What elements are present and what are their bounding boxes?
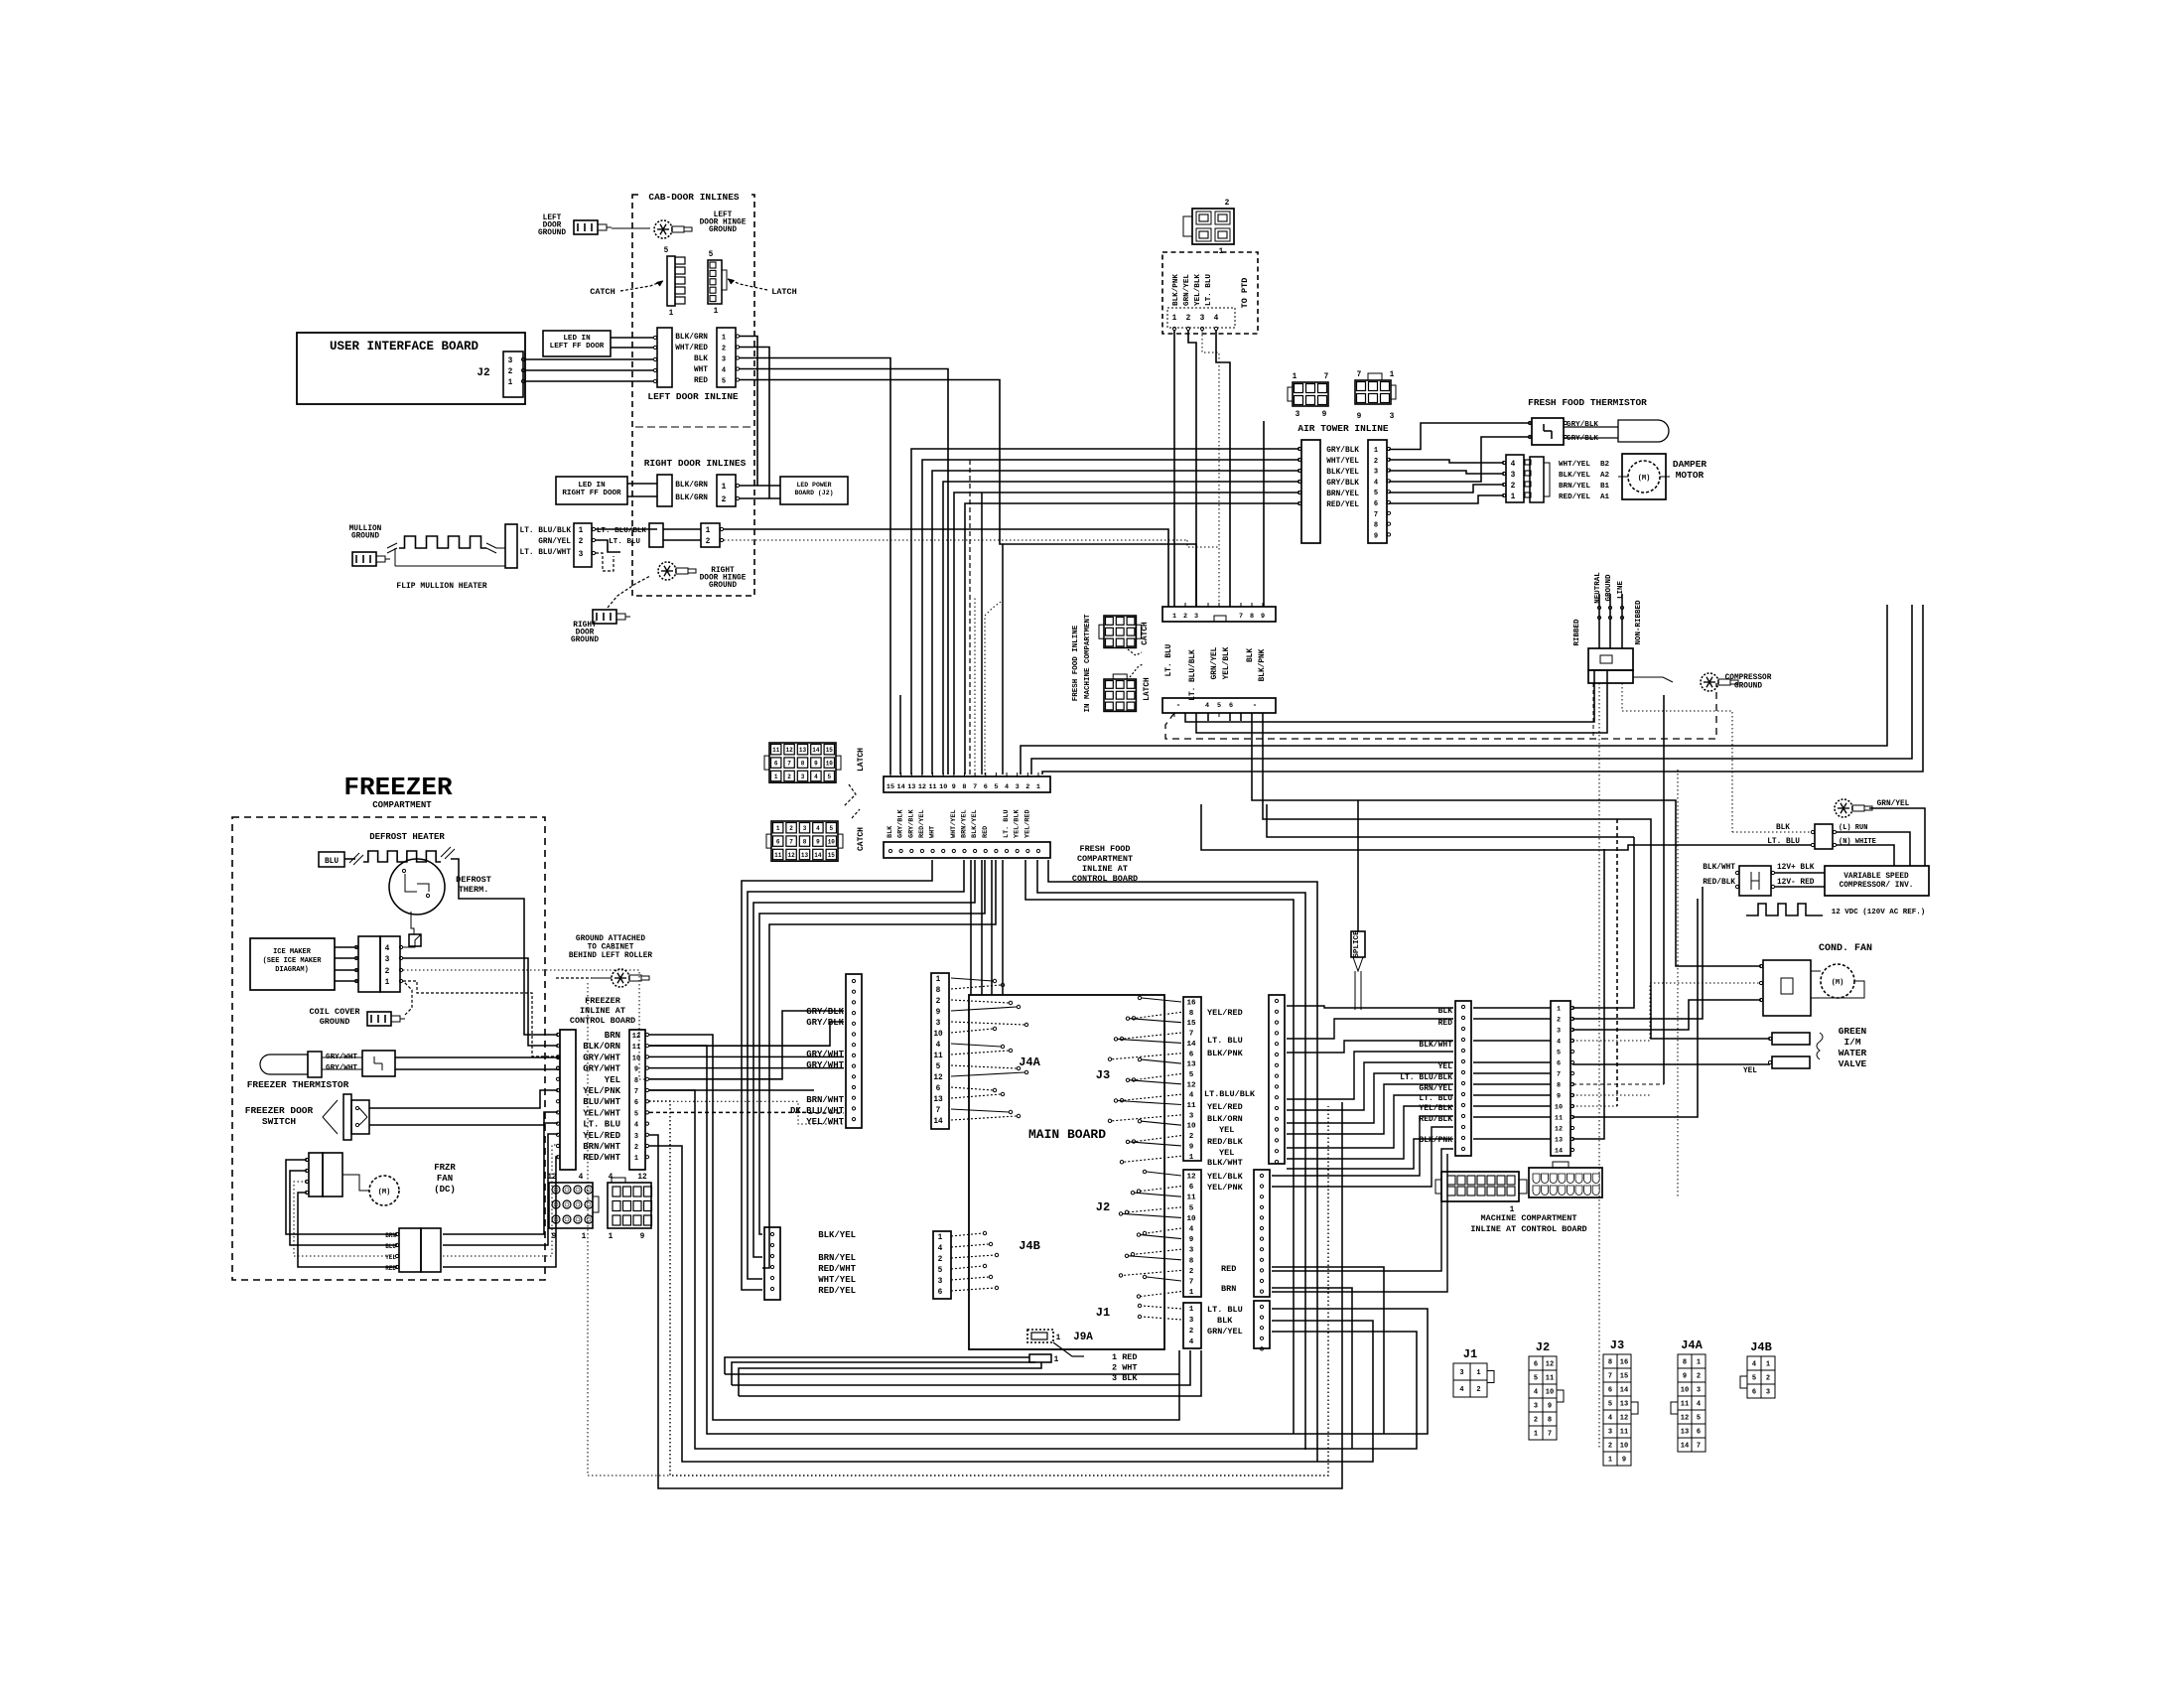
svg-text:14: 14 [1555,1148,1563,1156]
svg-text:1: 1 [1534,1431,1538,1439]
wires LED right [627,483,657,485]
svg-text:LT. BLU: LT. BLU [1003,809,1011,838]
svg-text:7: 7 [1239,613,1243,621]
svg-text:8: 8 [1683,1359,1687,1367]
cond fan wires [1676,960,1761,966]
svg-text:WHT/YEL: WHT/YEL [818,1275,856,1285]
svg-text:RED/BLK: RED/BLK [1207,1137,1244,1147]
svg-text:1: 1 [706,527,711,535]
svg-text:1: 1 [1172,613,1176,621]
svg-text:LT. BLU: LT. BLU [1767,838,1800,846]
svg-text:4: 4 [936,1042,941,1050]
svg-text:3: 3 [1766,1389,1770,1397]
terminal left door hinge ground [654,220,672,238]
svg-text:LATCH: LATCH [771,287,797,297]
svg-text:6: 6 [938,1289,943,1297]
svg-text:6: 6 [1189,1051,1194,1058]
svg-text:BLK/YEL: BLK/YEL [971,809,979,838]
svg-text:A1: A1 [1600,493,1610,501]
svg-text:YEL: YEL [385,1254,396,1261]
bus lines lower [1252,713,1676,960]
mullion heater connector [505,524,517,568]
svg-text:1: 1 [1557,1006,1561,1014]
svg-text:J2: J2 [1536,1340,1550,1354]
svg-text:BLK/ORN: BLK/ORN [583,1042,620,1052]
svg-text:LT. BLU: LT. BLU [1207,1036,1243,1046]
svg-text:FAN: FAN [437,1174,453,1184]
freezer thermistor symbol [260,1055,308,1074]
wires fresh food inline risers [974,367,976,774]
svg-text:12 VDC (120V AC REF.): 12 VDC (120V AC REF.) [1832,909,1926,916]
svg-text:4: 4 [1608,1415,1612,1423]
svg-text:COMPRESSOR/ INV.: COMPRESSOR/ INV. [1840,882,1914,890]
svg-text:11: 11 [774,852,782,859]
svg-text:WHT: WHT [929,826,937,838]
svg-text:3: 3 [1189,1247,1194,1255]
ffci cascade to J4B strip [742,860,932,1290]
freezer inline right strip [629,1030,645,1170]
svg-text:RED/BLK: RED/BLK [1703,879,1735,887]
air tower inline right strip [1368,440,1387,543]
svg-text:GROUND: GROUND [1605,574,1613,602]
J1 stubs [1142,1306,1181,1309]
svg-text:BRN/WHT: BRN/WHT [806,1095,844,1105]
svg-text:USER INTERFACE BOARD: USER INTERFACE BOARD [330,340,479,353]
svg-text:10: 10 [1620,1443,1628,1451]
svg-text:GROUND: GROUND [709,582,737,590]
svg-text:GROUND: GROUND [351,533,379,541]
svg-text:2: 2 [1189,1328,1194,1336]
svg-text:YEL: YEL [1219,1148,1234,1158]
svg-text:COMPARTMENT: COMPARTMENT [1077,854,1133,864]
svg-text:4: 4 [1005,783,1009,791]
svg-text:7: 7 [1324,373,1329,381]
svg-text:6: 6 [1189,1184,1194,1192]
svg-text:7: 7 [1374,511,1378,519]
svg-text:9: 9 [816,839,820,846]
J9A connector [1027,1330,1053,1342]
damper motor box [1622,454,1666,499]
svg-text:GROUND: GROUND [538,229,566,237]
svg-text:TO CABINET: TO CABINET [588,944,634,952]
svg-text:J2: J2 [1096,1200,1110,1214]
svg-text:1: 1 [582,1233,587,1241]
svg-text:(M): (M) [1832,979,1844,987]
svg-text:CATCH: CATCH [1142,622,1150,645]
svg-text:AIR TOWER INLINE: AIR TOWER INLINE [1297,423,1389,434]
svg-text:11: 11 [1620,1429,1628,1437]
svg-text:1: 1 [938,1234,943,1242]
svg-text:RIBBED: RIBBED [1573,619,1581,646]
svg-text:2: 2 [722,496,727,504]
svg-text:4: 4 [1189,1092,1194,1100]
J4A fan stubs [951,978,993,981]
svg-text:VALVE: VALVE [1839,1058,1867,1069]
svg-text:3: 3 [1016,783,1020,791]
svg-text:FREEZER: FREEZER [585,996,621,1006]
svg-text:LT. BLU: LT. BLU [583,1120,620,1130]
svg-text:6: 6 [1608,1387,1612,1395]
wire LT BLU dotted long [724,539,1187,541]
svg-text:13: 13 [907,783,915,791]
svg-text:4: 4 [579,1174,584,1182]
svg-text:4: 4 [634,1122,638,1130]
svg-text:3: 3 [1511,472,1516,480]
wire pin2 RED up to inverter [1572,887,1703,1019]
cab-door inlines dashed box [632,195,754,596]
freezer fan wires to inline [443,1123,558,1234]
svg-text:BLK/WHT: BLK/WHT [1419,1041,1452,1050]
svg-text:LATCH: LATCH [1144,677,1152,701]
svg-text:11: 11 [772,747,780,754]
PTD pin row [1167,308,1235,328]
svg-text:FREEZER DOOR: FREEZER DOOR [245,1105,314,1116]
LED IN RIGHT FF DOOR box [556,477,627,504]
svg-text:9: 9 [1189,1143,1194,1151]
freezer inline left strip [560,1030,576,1170]
svg-text:5: 5 [709,251,714,259]
main board box [969,995,1164,1349]
svg-text:7: 7 [1548,1431,1552,1439]
svg-text:2: 2 [722,346,726,353]
svg-text:GROUND: GROUND [320,1017,350,1027]
svg-text:12: 12 [1186,1081,1196,1089]
svg-text:3: 3 [801,774,805,780]
svg-text:11: 11 [1186,1102,1196,1110]
svg-text:4: 4 [814,774,818,780]
right door inline right connector [717,475,736,506]
svg-text:8: 8 [1250,613,1254,621]
svg-text:LEFT DOOR INLINE: LEFT DOOR INLINE [647,391,739,402]
compressor ground terminal [1701,673,1718,691]
damper comb connector [1530,457,1544,502]
svg-text:5: 5 [1189,1071,1194,1079]
svg-text:RED: RED [1221,1264,1236,1274]
svg-text:J3: J3 [1096,1068,1110,1082]
wire [612,227,650,229]
compressor circuit [1835,799,1852,817]
svg-text:9: 9 [814,761,818,768]
catch connector [667,256,675,306]
freezer door switch [343,1094,351,1140]
svg-text:8: 8 [1548,1417,1552,1425]
power cord drops [1598,683,1600,711]
svg-text:16: 16 [1186,1000,1196,1008]
defrost heater element [344,858,355,860]
svg-text:14: 14 [814,852,822,859]
svg-text:YEL: YEL [1743,1067,1757,1075]
J4B stubs [951,1233,983,1236]
svg-text:BLK/GRN: BLK/GRN [675,334,708,342]
svg-text:LT. BLU: LT. BLU [1205,274,1213,306]
svg-text:13: 13 [1555,1137,1563,1145]
svg-text:GRY/BLK: GRY/BLK [1567,421,1598,429]
svg-text:BOARD (J2): BOARD (J2) [794,490,833,496]
svg-text:7: 7 [1557,1071,1561,1079]
flip mullion heater element [387,543,397,548]
svg-text:7: 7 [787,761,791,768]
svg-text:12: 12 [787,852,795,859]
wires between strips [1473,1007,1551,1009]
J2 right pin strip [1254,1170,1270,1297]
svg-text:4: 4 [1752,1361,1756,1369]
svg-text:2: 2 [938,1256,943,1264]
svg-text:1: 1 [776,825,780,832]
svg-text:5: 5 [1534,1375,1538,1383]
svg-text:7: 7 [1189,1031,1194,1039]
J9A wires left [725,1357,1029,1374]
svg-text:GRN/YEL: GRN/YEL [1211,646,1219,679]
svg-text:8: 8 [801,761,805,768]
svg-text:YEL: YEL [1219,1125,1234,1135]
svg-text:6: 6 [774,761,778,768]
svg-text:1: 1 [1189,1306,1194,1314]
svg-text:9: 9 [1683,1373,1687,1381]
svg-text:12V+ BLK: 12V+ BLK [1777,864,1815,872]
wire pin10 dotted to dashed riser [1572,1105,1617,1107]
svg-text:YEL/BLK: YEL/BLK [1194,274,1202,306]
bus line y856 LT BLU [1201,804,1811,850]
svg-text:5: 5 [1697,1415,1701,1423]
svg-text:2 WHT: 2 WHT [1112,1363,1138,1373]
air tower inline left strip [1301,440,1320,543]
svg-text:14: 14 [1681,1443,1689,1451]
svg-text:13: 13 [933,1096,943,1104]
svg-text:BRN: BRN [1221,1284,1236,1294]
svg-text:VARIABLE SPEED: VARIABLE SPEED [1843,873,1909,881]
svg-text:7: 7 [1189,1279,1194,1287]
vertical group right [1663,695,1665,1084]
svg-text:GROUND: GROUND [1734,683,1762,691]
svg-text:WHT/RED: WHT/RED [675,345,708,352]
svg-text:INLINE AT: INLINE AT [1082,864,1128,874]
svg-text:BLK: BLK [1217,1316,1233,1326]
svg-text:6: 6 [936,1085,941,1093]
svg-text:GRY/WHT: GRY/WHT [583,1053,620,1062]
svg-text:1: 1 [722,335,726,343]
svg-text:4: 4 [722,367,726,375]
svg-text:6: 6 [776,839,780,846]
svg-text:5: 5 [827,774,831,780]
FRZR FAN connector [309,1153,323,1196]
svg-text:3: 3 [385,956,390,964]
ice maker connector [358,936,380,992]
svg-text:J4B: J4B [1019,1239,1040,1253]
svg-text:12V- RED: 12V- RED [1777,879,1815,887]
svg-text:5: 5 [936,1063,941,1071]
svg-text:(L) RUN: (L) RUN [1839,824,1867,832]
wire pin3 to cond fan low pin [1572,1000,1761,1030]
svg-text:1: 1 [1056,1335,1061,1342]
svg-text:RED: RED [385,1265,396,1272]
svg-text:GROUND ATTACHED: GROUND ATTACHED [576,935,646,943]
ground mullion [352,552,376,566]
svg-text:(M): (M) [378,1189,391,1196]
svg-text:1: 1 [1697,1359,1701,1367]
svg-text:1: 1 [1189,1154,1194,1162]
svg-text:2: 2 [1766,1375,1770,1383]
PTD wires down [1173,331,1175,607]
svg-text:8: 8 [1557,1082,1561,1090]
svg-text:6: 6 [1374,500,1378,508]
svg-text:10: 10 [826,761,834,768]
fresh food compartment inline numbers strip [884,776,1050,792]
svg-text:4: 4 [938,1245,943,1253]
svg-text:FREEZER THERMISTOR: FREEZER THERMISTOR [247,1079,349,1090]
svg-text:3: 3 [1697,1387,1701,1395]
svg-text:BLK: BLK [694,355,708,363]
divider [635,426,751,428]
svg-text:GRY/BLK: GRY/BLK [1567,435,1598,443]
power cord wires top [1598,594,1600,648]
svg-text:3: 3 [1534,1403,1538,1411]
svg-text:4: 4 [1557,1039,1561,1047]
svg-text:YEL: YEL [1438,1062,1453,1071]
machine ff inline upper strip [1162,607,1276,622]
dashed ground wire [608,576,650,608]
splice [1351,931,1365,957]
freezer inline 12-pin connector drawings [549,1183,593,1228]
svg-text:2: 2 [579,538,584,546]
svg-text:RED/WHT: RED/WHT [818,1264,856,1274]
machine compartment connector drawing 1 [1441,1172,1519,1201]
svg-text:1: 1 [579,527,584,535]
svg-text:GRN/YEL: GRN/YEL [1877,800,1910,808]
svg-text:9: 9 [640,1233,645,1241]
J4B left strip [764,1227,780,1300]
svg-text:14: 14 [1620,1387,1628,1395]
svg-text:3: 3 [1189,1112,1194,1120]
svg-text:-: - [1253,702,1258,710]
svg-text:SWITCH: SWITCH [262,1116,297,1127]
svg-text:4: 4 [1374,479,1378,487]
svg-text:8: 8 [1189,1257,1194,1265]
svg-text:1: 1 [1608,1457,1612,1465]
svg-text:1: 1 [508,379,513,387]
defrost therm lead down [411,912,414,934]
svg-text:RED: RED [694,377,708,385]
ice maker to bus wires [403,934,421,947]
svg-text:BLK/WHT: BLK/WHT [1207,1158,1243,1168]
svg-text:BEHIND LEFT ROLLER: BEHIND LEFT ROLLER [569,952,653,960]
svg-text:MACHINE COMPARTMENT: MACHINE COMPARTMENT [1481,1213,1577,1223]
svg-text:4: 4 [609,1174,614,1182]
svg-text:16: 16 [1620,1359,1628,1367]
svg-text:FRESH FOOD: FRESH FOOD [1079,844,1130,854]
svg-text:BLK: BLK [1247,648,1255,662]
svg-text:8: 8 [936,987,941,995]
svg-text:3: 3 [1200,315,1205,323]
wire pin4 dotted to cond fan mid pin [1572,983,1761,1041]
J1 right pin strip [1254,1301,1270,1348]
freezer rows down to bottom bus [649,1035,1179,1420]
bus lines FF inline to right [1165,683,1716,739]
svg-text:RIGHT DOOR INLINES: RIGHT DOOR INLINES [644,458,747,469]
J1 connector strip [1183,1303,1201,1348]
svg-text:10: 10 [939,783,947,791]
right door hinge ground terminal [658,562,676,580]
svg-text:5: 5 [664,247,669,255]
svg-text:BRN: BRN [605,1031,620,1041]
svg-text:(DC): (DC) [434,1185,456,1195]
right drawing [608,1183,651,1228]
svg-text:CATCH: CATCH [590,287,615,297]
svg-text:8: 8 [1608,1359,1612,1367]
svg-text:9: 9 [1261,613,1265,621]
svg-text:10: 10 [1555,1104,1563,1112]
svg-text:1: 1 [714,308,719,316]
svg-text:6: 6 [984,783,988,791]
svg-text:8: 8 [803,839,807,846]
right door inline left connector [657,475,672,506]
svg-text:1: 1 [774,774,778,780]
J3 fan stubs [1142,998,1181,1002]
J4A numbers strip [931,973,949,1129]
svg-text:B2: B2 [1600,461,1610,469]
svg-text:GRN/YEL: GRN/YEL [538,538,571,546]
compressor ground wire [1633,677,1673,682]
svg-text:GRY/BLK: GRY/BLK [1326,480,1359,488]
variable speed compressor box [1825,866,1929,896]
svg-text:3: 3 [1194,613,1198,621]
svg-text:12: 12 [637,1174,647,1182]
svg-text:11: 11 [1555,1115,1563,1123]
svg-text:12: 12 [1546,1361,1554,1369]
svg-text:GRN/YEL: GRN/YEL [1419,1084,1452,1093]
svg-text:2: 2 [1534,1417,1538,1425]
L N wires [1732,831,1811,833]
svg-text:5: 5 [1217,702,1221,710]
svg-text:MOTOR: MOTOR [1676,470,1705,481]
svg-text:YEL/PNK: YEL/PNK [583,1086,620,1096]
svg-text:2: 2 [1557,1017,1561,1025]
wires into air tower left strip [911,449,1299,774]
svg-text:J4B: J4B [1750,1340,1772,1354]
svg-text:3: 3 [1459,1369,1463,1377]
svg-text:YEL: YEL [605,1075,620,1085]
svg-text:6: 6 [1697,1429,1701,1437]
svg-text:9: 9 [634,1066,638,1074]
svg-text:RED: RED [1438,1019,1453,1028]
svg-text:7: 7 [634,1088,638,1096]
svg-text:MAIN BOARD: MAIN BOARD [1028,1127,1106,1142]
svg-text:10: 10 [1546,1389,1554,1397]
svg-text:9: 9 [1622,1457,1626,1465]
J4B numbers strip [933,1231,951,1299]
mullion connector 2 [574,523,592,567]
BLU box [319,852,344,867]
svg-text:WHT/YEL: WHT/YEL [1326,458,1359,466]
svg-text:RED/YEL: RED/YEL [918,809,926,838]
wire pin13 BLK/PNK up [1572,849,1604,1139]
svg-text:3: 3 [508,357,513,365]
svg-text:13: 13 [801,852,809,859]
svg-text:BLK/GRN: BLK/GRN [675,494,708,502]
svg-text:9: 9 [1557,1093,1561,1101]
J2 connector strip [1183,1170,1201,1297]
fan loop wires [286,1160,397,1234]
svg-text:GROUND: GROUND [571,636,599,644]
wire pin8 dashed [1572,1083,1664,1085]
svg-text:COMPRESSOR: COMPRESSOR [1725,674,1772,682]
svg-text:2: 2 [385,968,390,976]
svg-text:12: 12 [785,747,793,754]
svg-text:J4A: J4A [1019,1055,1040,1069]
svg-text:10: 10 [933,1031,943,1039]
svg-text:11: 11 [1681,1401,1689,1409]
ff inline machine grids latch [1104,679,1136,711]
svg-text:14: 14 [897,783,905,791]
